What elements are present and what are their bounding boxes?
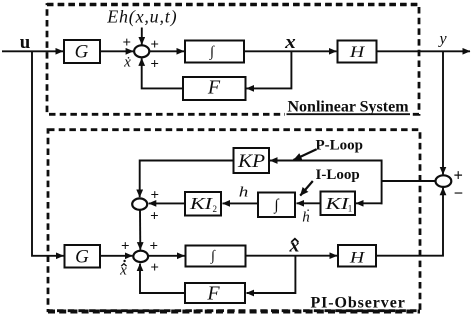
svg-text:+: + [123,35,132,51]
svg-text:+: + [150,260,159,276]
block F1 [183,77,246,100]
svg-text:ẋ: ẋ [123,55,131,71]
svg-text:−: − [454,183,463,202]
block KI2 [185,192,221,216]
block integrator INT1 [185,41,244,63]
wire G2 to S3 [100,255,132,257]
wire INT3 to H2 [246,255,338,257]
svg-text:+: + [151,188,160,204]
node xhatdot label [119,260,127,279]
svg-text:+: + [150,57,159,73]
block integrator INT2 [258,193,295,218]
svg-text:2: 2 [213,204,218,214]
block H2 [338,245,376,267]
wire KI1 to INT2 [297,202,321,204]
wire G1 to summing junction S1 [100,50,133,52]
svg-text:H: H [349,44,366,61]
block H1 [338,41,377,63]
wire KP out to S2 top [140,161,234,198]
dashed box Nonlinear System [47,5,419,115]
node xhat label [289,236,300,257]
block integrator INT3 [186,246,246,267]
svg-text:KI: KI [189,194,214,213]
svg-text:h: h [239,185,249,201]
wire INT2 to KI2 [223,202,259,204]
node Nonlinear System label [285,99,412,117]
wire I-Loop annotation arrow [300,181,313,196]
block G1 [64,40,100,63]
svg-text:KI: KI [324,194,350,213]
wire x branch down to F1 [247,51,292,88]
svg-text:u: u [20,32,31,53]
wire F1 to S1 bottom [142,58,183,88]
svg-text:+: + [150,209,159,225]
wire NL box top emphasized dashes [47,3,419,6]
wire u input [2,50,63,52]
svg-text:P-Loop: P-Loop [316,138,364,154]
wire error out of S4 to split node [382,180,437,182]
summing junction S3 [133,251,148,262]
wire KI2 to S2 [149,202,185,204]
wire y feedback down to S4 [442,51,444,174]
summing junction S2 [132,198,147,209]
svg-text:+: + [150,239,159,255]
svg-text:Eh(x,u,t): Eh(x,u,t) [106,7,177,28]
svg-text:+: + [121,239,130,255]
wire S2 down to S3 [139,210,141,250]
wire S3 to INT3 [148,255,184,257]
svg-text:ḣ: ḣ [302,210,310,226]
wire xhat branch down to F2 [247,256,296,293]
block KI1 [321,192,356,216]
svg-text:y: y [437,31,447,48]
block KP [234,148,270,173]
wire H1 output y [377,50,471,52]
wire error to KI1 [356,202,383,204]
summing junction S4 error [436,175,452,187]
wire yhat from H2 up into S4 bottom [376,188,443,256]
svg-text:PI-Observer: PI-Observer [311,295,406,312]
wire INT1 to H1 [244,50,336,52]
svg-text:1: 1 [348,204,353,214]
svg-text:x: x [284,32,296,53]
block F2 [185,282,245,304]
svg-text:I-Loop: I-Loop [316,167,360,183]
wire u branch down to observer G2 [32,51,64,256]
wire F2 to S3 bottom [140,264,185,293]
dashed box PI-Observer [48,130,420,311]
svg-text:G: G [75,246,89,267]
wire Eh arrow into S1 [141,28,143,45]
svg-text:H: H [349,250,366,267]
svg-text:KP: KP [237,152,265,172]
summing junction S1 [134,45,149,57]
svg-text:G: G [75,42,89,63]
wire S1 to integrator INT1 [149,50,184,52]
svg-text:F: F [206,282,220,304]
block G2 [65,245,101,268]
svg-text:Nonlinear System: Nonlinear System [288,99,410,116]
wire error split vertical [381,160,383,205]
svg-text:F: F [207,77,221,99]
svg-text:+: + [453,165,462,184]
wire PI box bottom emphasized dashes [48,310,420,314]
wire error to KP [270,160,383,162]
wire P-Loop annotation arrow [294,149,317,160]
